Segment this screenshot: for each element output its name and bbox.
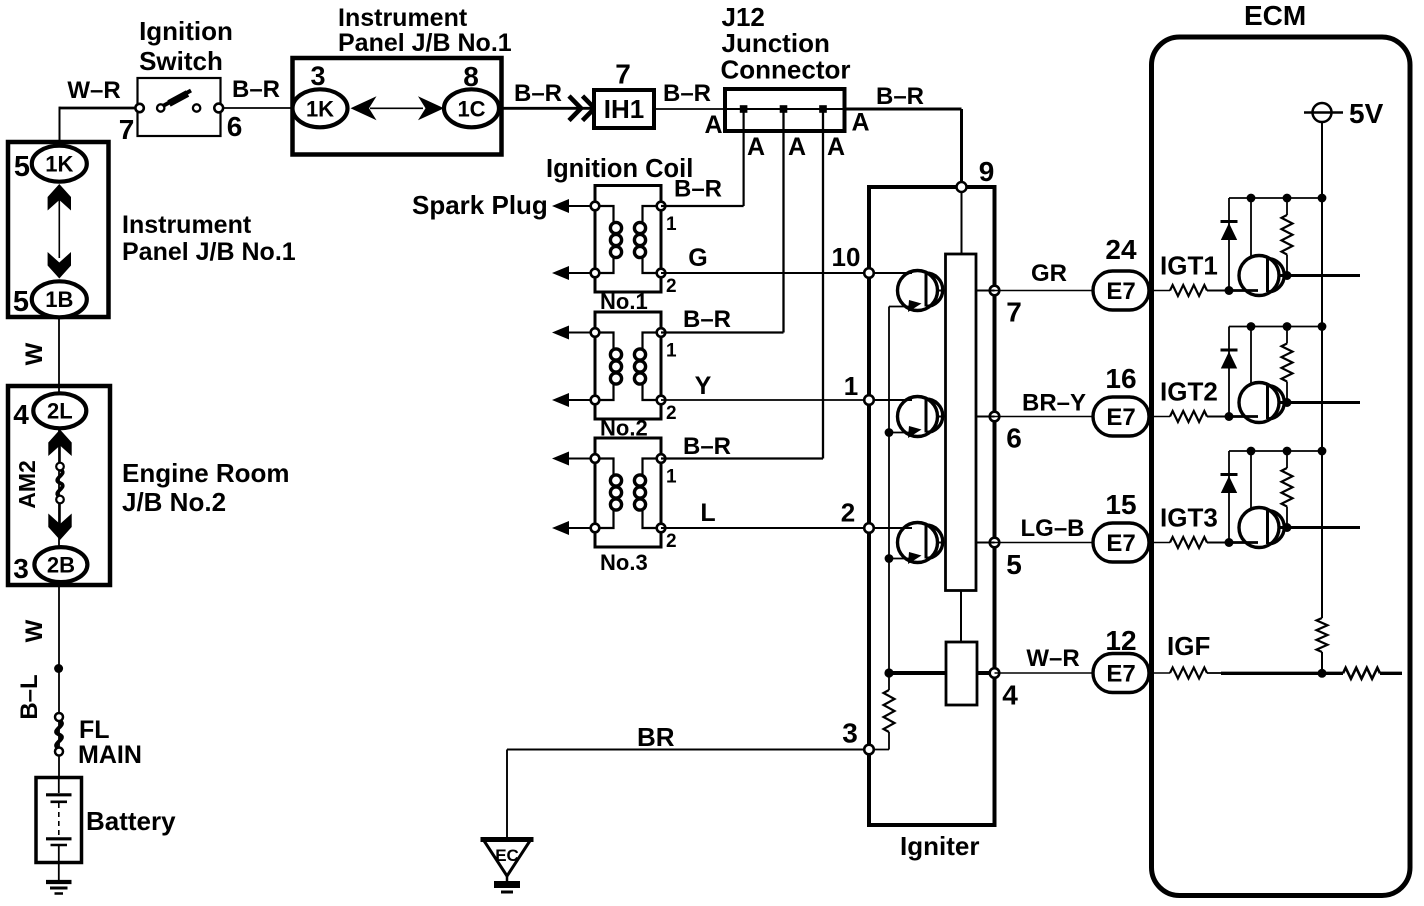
svg-text:AM2: AM2 (14, 460, 40, 509)
svg-text:Instrument: Instrument (338, 4, 468, 32)
svg-text:L: L (700, 499, 715, 527)
svg-text:3: 3 (842, 718, 858, 749)
svg-text:8: 8 (463, 61, 479, 92)
svg-text:Ignition Coil: Ignition Coil (546, 155, 693, 183)
svg-text:Igniter: Igniter (900, 831, 979, 861)
svg-text:1: 1 (666, 214, 677, 235)
svg-text:1: 1 (666, 341, 677, 362)
svg-text:A: A (704, 111, 722, 139)
svg-text:EC: EC (495, 846, 519, 865)
svg-text:1B: 1B (45, 287, 73, 312)
svg-text:Engine Room: Engine Room (122, 458, 290, 488)
svg-text:B–R: B–R (514, 80, 562, 107)
svg-text:16: 16 (1105, 363, 1136, 394)
svg-text:No.1: No.1 (600, 289, 648, 314)
svg-text:5: 5 (13, 286, 29, 318)
svg-text:IGT3: IGT3 (1160, 503, 1218, 533)
svg-text:2: 2 (841, 498, 855, 528)
svg-text:No.3: No.3 (600, 550, 648, 575)
svg-text:W–R: W–R (67, 77, 120, 104)
svg-text:9: 9 (979, 156, 995, 187)
svg-text:5: 5 (14, 151, 30, 183)
svg-text:E7: E7 (1106, 278, 1135, 305)
svg-text:W–R: W–R (1026, 645, 1079, 672)
svg-text:3: 3 (13, 553, 29, 584)
svg-text:IH1: IH1 (604, 94, 644, 124)
svg-text:MAIN: MAIN (78, 741, 142, 769)
svg-text:IGT1: IGT1 (1160, 251, 1218, 281)
svg-text:2: 2 (666, 531, 677, 552)
svg-text:2: 2 (666, 403, 677, 424)
svg-text:1C: 1C (457, 97, 485, 122)
svg-text:G: G (688, 244, 707, 272)
svg-text:10: 10 (832, 242, 861, 272)
svg-text:24: 24 (1105, 234, 1137, 265)
svg-text:Battery: Battery (86, 806, 176, 836)
svg-text:FL: FL (79, 716, 110, 744)
svg-text:IGT2: IGT2 (1160, 377, 1218, 407)
svg-text:Spark Plug: Spark Plug (412, 190, 548, 220)
svg-text:E7: E7 (1106, 404, 1135, 431)
svg-text:J/B No.2: J/B No.2 (122, 487, 226, 517)
svg-text:2: 2 (666, 276, 677, 297)
svg-text:Ignition: Ignition (139, 16, 233, 46)
svg-text:B–R: B–R (683, 433, 731, 460)
svg-text:Junction: Junction (722, 28, 830, 58)
svg-text:B–R: B–R (232, 76, 280, 103)
svg-text:Panel J/B No.1: Panel J/B No.1 (338, 29, 512, 57)
svg-text:Instrument: Instrument (122, 211, 252, 239)
svg-text:B–L: B–L (16, 674, 43, 719)
svg-text:1K: 1K (306, 97, 334, 122)
svg-text:LG–B: LG–B (1020, 515, 1084, 542)
svg-text:B–R: B–R (663, 80, 711, 107)
svg-text:BR: BR (637, 722, 675, 752)
svg-text:GR: GR (1031, 260, 1067, 287)
svg-text:E7: E7 (1106, 530, 1135, 557)
svg-text:A: A (788, 133, 806, 161)
svg-text:7: 7 (1006, 297, 1022, 328)
svg-text:B–R: B–R (683, 306, 731, 333)
svg-text:6: 6 (227, 111, 243, 142)
svg-text:B–R: B–R (674, 176, 722, 203)
svg-text:E7: E7 (1106, 661, 1135, 688)
svg-text:Panel J/B No.1: Panel J/B No.1 (122, 238, 296, 266)
svg-text:Y: Y (695, 372, 712, 400)
svg-text:4: 4 (1002, 680, 1018, 711)
svg-text:7: 7 (615, 59, 631, 90)
svg-text:1: 1 (844, 371, 858, 401)
svg-text:1: 1 (666, 467, 677, 488)
svg-text:1K: 1K (45, 152, 73, 177)
svg-text:12: 12 (1105, 625, 1136, 656)
svg-text:B–R: B–R (876, 83, 924, 110)
svg-text:BR–Y: BR–Y (1022, 390, 1086, 417)
svg-text:6: 6 (1006, 423, 1022, 454)
svg-text:W: W (21, 619, 48, 642)
svg-text:IGF: IGF (1167, 631, 1210, 661)
svg-text:7: 7 (119, 114, 135, 145)
svg-text:Connector: Connector (721, 55, 851, 85)
svg-text:ECM: ECM (1244, 0, 1306, 31)
svg-text:3: 3 (310, 61, 325, 91)
svg-text:2L: 2L (47, 399, 73, 424)
svg-text:A: A (851, 109, 869, 137)
svg-text:A: A (827, 133, 845, 161)
svg-text:W: W (21, 342, 48, 365)
svg-text:A: A (747, 133, 765, 161)
svg-text:4: 4 (13, 399, 29, 430)
svg-text:2B: 2B (47, 552, 75, 577)
svg-text:5V: 5V (1349, 98, 1384, 129)
svg-text:Switch: Switch (139, 46, 223, 76)
svg-text:15: 15 (1105, 489, 1136, 520)
svg-text:5: 5 (1006, 549, 1022, 580)
